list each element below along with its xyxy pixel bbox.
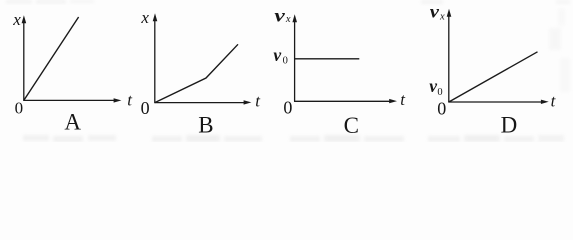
svg-text:0: 0: [437, 87, 442, 98]
svg-text:A: A: [64, 109, 81, 134]
graph B curve: two-segment rising line x(t): [155, 44, 238, 102]
faint erased-text smudge top-middle: [421, 0, 570, 4]
faint erased-text smudge bottom band: [23, 135, 564, 142]
svg-text:x: x: [140, 8, 149, 27]
svg-text:x: x: [285, 14, 291, 25]
graph D value label v0: [429, 76, 442, 98]
svg-text:B: B: [198, 112, 213, 137]
svg-text:0: 0: [283, 56, 288, 67]
svg-text:0: 0: [437, 99, 446, 119]
graph B x-axis (t axis): [154, 100, 251, 104]
graph A x-axis (t axis): [23, 98, 121, 102]
svg-text:D: D: [501, 112, 518, 137]
svg-text:v: v: [430, 1, 439, 21]
graph D x-axis (t axis): [448, 100, 549, 104]
svg-text:v: v: [429, 76, 437, 96]
graph B y-axis (x axis line vertical): [153, 13, 158, 102]
graph A y-axis (x axis line vertical): [22, 15, 27, 100]
faint erased-text smudge right side: [549, 8, 570, 92]
svg-text:C: C: [344, 113, 359, 138]
graph C value label v0: [273, 45, 287, 67]
svg-text:v: v: [274, 5, 285, 25]
svg-text:v: v: [273, 45, 281, 65]
svg-text:x: x: [12, 10, 21, 29]
svg-text:0: 0: [283, 98, 292, 118]
graph D y-axis (v_x axis vertical): [447, 9, 452, 102]
graph C y-axis (v_x axis vertical): [292, 14, 297, 101]
svg-text:0: 0: [141, 98, 150, 118]
graph C curve: constant velocity line at v0: [295, 58, 360, 60]
svg-text:x: x: [439, 11, 445, 22]
graph C x-axis (t axis): [294, 99, 397, 103]
graph D axis label v_x: [430, 1, 445, 22]
graph C axis label v_x: [274, 5, 291, 25]
faint erased-text smudge top-left: [6, 0, 94, 4]
svg-text:0: 0: [15, 99, 24, 118]
graph D curve: rising straight line v(t) from origin: [449, 52, 538, 102]
graph A curve: straight line x(t) through origin: [24, 17, 79, 100]
